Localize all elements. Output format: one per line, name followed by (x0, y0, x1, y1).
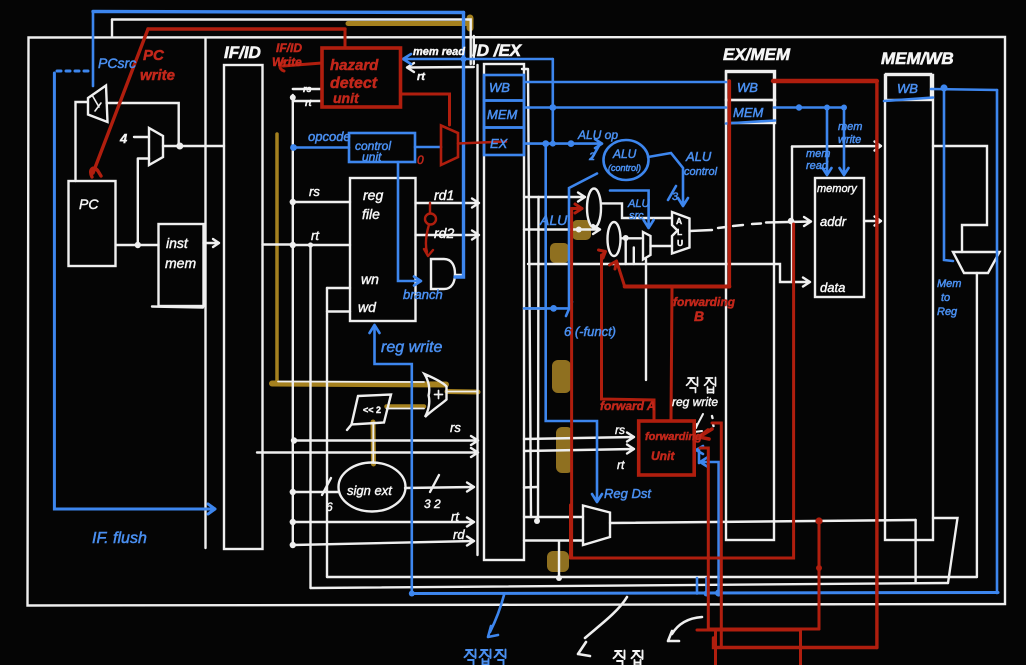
svg-text:Reg: Reg (937, 306, 958, 318)
svg-text:EX/MEM: EX/MEM (723, 45, 791, 64)
svg-text:forward A: forward A (600, 399, 656, 413)
svg-text:A: A (676, 216, 682, 226)
svg-text:Reg Dst: Reg Dst (604, 486, 652, 501)
svg-text:Write: Write (272, 55, 302, 69)
svg-text:rd: rd (453, 527, 465, 542)
svg-text:reg write: reg write (672, 395, 718, 409)
svg-text:rd1: rd1 (434, 187, 454, 203)
svg-text:U: U (677, 238, 683, 248)
svg-text:ALU: ALU (627, 198, 649, 210)
svg-text:rs: rs (303, 84, 312, 94)
svg-text:to: to (941, 292, 950, 304)
svg-text:unit: unit (362, 150, 382, 164)
svg-text:reg: reg (363, 187, 383, 203)
svg-text:rt: rt (417, 71, 426, 83)
svg-text:ALU op: ALU op (577, 128, 618, 142)
svg-text:ALU: ALU (612, 147, 637, 161)
svg-text:sign ext: sign ext (347, 483, 393, 498)
svg-text:PCsrc: PCsrc (98, 55, 136, 71)
svg-text:ALU: ALU (685, 149, 712, 164)
svg-text:3: 3 (672, 191, 679, 203)
svg-text:<< 2: << 2 (363, 405, 381, 415)
svg-text:memory: memory (817, 183, 858, 195)
svg-text:WB: WB (737, 80, 758, 95)
svg-text:IF/ID: IF/ID (276, 41, 302, 55)
svg-text:rt: rt (311, 228, 320, 243)
svg-text:opcode: opcode (308, 129, 351, 144)
svg-text:3 2: 3 2 (424, 497, 441, 511)
svg-text:rs: rs (450, 420, 461, 435)
svg-text:mem: mem (165, 255, 196, 271)
svg-text:WB: WB (489, 80, 510, 95)
svg-text:Unit: Unit (651, 449, 675, 463)
svg-text:Mem: Mem (937, 278, 961, 290)
svg-text:mem read: mem read (413, 46, 465, 58)
svg-text:src: src (629, 210, 644, 222)
svg-text:branch: branch (403, 287, 443, 302)
svg-text:L: L (677, 227, 682, 237)
svg-text:ID /EX: ID /EX (472, 41, 523, 60)
svg-text:rt: rt (305, 98, 313, 108)
svg-text:mem: mem (838, 121, 862, 133)
svg-text:rs: rs (615, 423, 625, 437)
svg-text:forwarding: forwarding (673, 295, 736, 309)
svg-text:ALU: ALU (539, 212, 568, 228)
svg-text:4: 4 (119, 131, 128, 146)
svg-text:MEM: MEM (487, 107, 518, 122)
svg-text:rs: rs (309, 184, 320, 199)
svg-text:inst: inst (166, 235, 189, 251)
svg-text:hazard: hazard (330, 57, 379, 74)
svg-text:write: write (838, 134, 861, 146)
svg-text:data: data (820, 280, 845, 295)
svg-text:control: control (684, 166, 718, 178)
svg-text:EX: EX (490, 136, 509, 151)
svg-text:wn: wn (361, 271, 379, 287)
svg-text:WB: WB (897, 81, 918, 96)
svg-text:(control): (control) (608, 163, 641, 173)
svg-text:MEM/WB: MEM/WB (881, 49, 954, 68)
svg-text:IF. flush: IF. flush (92, 530, 147, 547)
svg-text:unit: unit (333, 90, 360, 106)
svg-text:0: 0 (417, 153, 424, 167)
svg-text:write: write (140, 67, 175, 84)
svg-text:rt: rt (451, 509, 460, 524)
svg-text:mem: mem (806, 148, 830, 160)
svg-text:reg write: reg write (381, 339, 442, 356)
svg-text:IF/ID: IF/ID (224, 43, 261, 62)
svg-text:6 (-funct): 6 (-funct) (564, 324, 616, 339)
svg-text:PC: PC (79, 196, 99, 212)
svg-text:rd2: rd2 (434, 225, 454, 241)
svg-text:6: 6 (326, 500, 333, 514)
svg-text:MEM: MEM (733, 105, 764, 120)
svg-text:rt: rt (617, 458, 625, 472)
svg-text:B: B (694, 308, 704, 324)
svg-text:read: read (806, 160, 829, 172)
svg-text:file: file (362, 206, 380, 222)
svg-text:wd: wd (358, 299, 377, 315)
svg-text:addr: addr (820, 214, 847, 229)
svg-text:PC: PC (143, 47, 165, 64)
svg-text:forwarding: forwarding (645, 431, 702, 443)
svg-text:2: 2 (588, 151, 595, 163)
